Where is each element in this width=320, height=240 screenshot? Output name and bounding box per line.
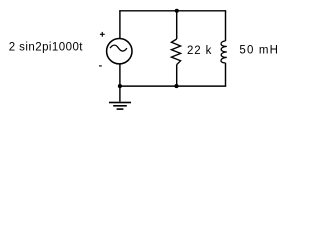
wire: bottom rail bbox=[120, 85, 226, 87]
ac voltage source VS sine symbol bbox=[110, 45, 127, 51]
wire: inductor top lead bbox=[225, 11, 227, 41]
wire: top rail bbox=[120, 10, 226, 12]
wire: source top lead bbox=[119, 11, 121, 39]
junction node: source / ground bbox=[118, 84, 122, 88]
svg-text:22 k: 22 k bbox=[187, 45, 212, 57]
resistor R zigzag bbox=[171, 39, 180, 65]
polarity - sign of source bbox=[99, 65, 102, 66]
junction node: bottom of resistor bbox=[174, 84, 178, 88]
wire: inductor bottom lead bbox=[225, 63, 227, 86]
inductor L coil bbox=[221, 41, 227, 63]
polarity + sign of source bbox=[100, 32, 105, 37]
wire: resistor top lead bbox=[176, 11, 178, 39]
ac voltage source VS body bbox=[107, 39, 132, 64]
junction node: top of resistor bbox=[175, 9, 179, 13]
ground symbol bar 1 bbox=[109, 102, 131, 104]
wire: ground stem bbox=[119, 86, 121, 102]
wire: source bottom lead bbox=[119, 64, 121, 86]
wire: resistor bottom lead bbox=[176, 65, 178, 87]
ground symbol bar 3 bbox=[117, 108, 124, 110]
ground symbol bar 2 bbox=[113, 105, 127, 107]
svg-text:50 mH: 50 mH bbox=[239, 45, 279, 57]
svg-text:2 sin2pi1000t: 2 sin2pi1000t bbox=[9, 41, 84, 53]
